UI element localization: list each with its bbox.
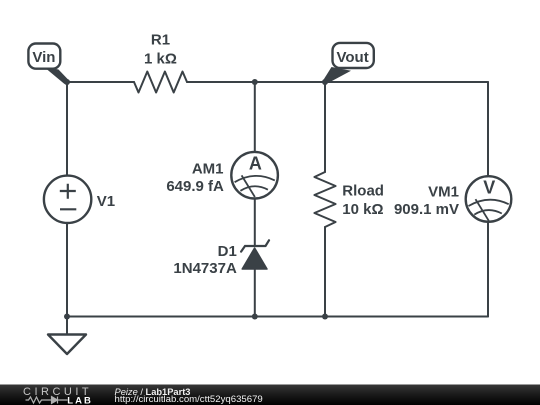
svg-text:http://circuitlab.com/ctt52yq6: http://circuitlab.com/ctt52yq635679 <box>115 394 263 405</box>
wire left vertical upper (Vin node to V1) <box>66 82 68 176</box>
wire top left (Vin node to R1) <box>67 81 134 83</box>
svg-text:909.1 mV: 909.1 mV <box>394 201 459 218</box>
svg-text:Vin: Vin <box>32 49 55 66</box>
wire bottom rail <box>67 316 488 318</box>
resistor Rload <box>314 172 335 227</box>
svg-text:A: A <box>249 154 262 174</box>
svg-text:R1: R1 <box>151 31 170 48</box>
logo circuit glyph <box>26 397 68 404</box>
voltage source V1 <box>44 176 91 223</box>
ground <box>48 335 86 355</box>
svg-text:LAB: LAB <box>67 396 93 405</box>
junction dot AM1 top <box>252 79 258 85</box>
node Vout box <box>333 43 374 68</box>
voltmeter VM1 <box>466 176 512 222</box>
node Vin box <box>28 44 60 69</box>
wire right vertical lower (VM1 to bottom rail) <box>487 222 489 317</box>
node Vin flag tail <box>44 67 70 85</box>
resistor R1 <box>134 72 187 93</box>
junction dot AM1 bottom <box>252 314 258 320</box>
junction dot Rload bottom <box>322 314 328 320</box>
svg-text:10 kΩ: 10 kΩ <box>342 201 383 218</box>
wire Rload to bottom rail <box>324 227 326 317</box>
wire top (R1 to top-right corner) <box>187 81 488 83</box>
wire left vertical lower (V1 to bottom rail) <box>66 223 68 317</box>
svg-text:V1: V1 <box>97 193 115 210</box>
junction dot Vout node <box>322 79 328 85</box>
wire AM1 branch upper <box>254 82 256 152</box>
svg-text:1N4737A: 1N4737A <box>173 260 237 277</box>
ammeter AM1 <box>231 152 278 199</box>
wire ground stub <box>66 317 68 335</box>
svg-text:V: V <box>483 178 495 198</box>
junction dot ground node <box>64 314 70 320</box>
footer bar <box>0 385 540 405</box>
svg-text:D1: D1 <box>218 243 237 260</box>
junction dot Vin node <box>64 79 70 85</box>
svg-text:VM1: VM1 <box>428 184 459 201</box>
wire Rload branch upper <box>324 82 326 172</box>
svg-text:Rload: Rload <box>342 183 384 200</box>
wire AM1 to D1 <box>254 199 256 247</box>
zener diode D1 <box>241 240 269 269</box>
svg-text:AM1: AM1 <box>192 160 224 177</box>
wire right vertical upper (to VM1) <box>487 82 489 176</box>
wire D1 to bottom rail <box>254 269 256 317</box>
svg-text:1 kΩ: 1 kΩ <box>144 51 177 68</box>
svg-text:649.9 fA: 649.9 fA <box>166 178 224 195</box>
svg-text:Vout: Vout <box>336 49 368 66</box>
node Vout flag tail <box>323 67 351 84</box>
